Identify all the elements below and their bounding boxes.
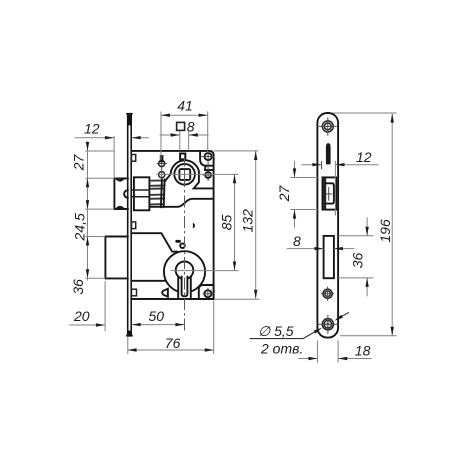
spindle follower hub bbox=[174, 164, 195, 185]
spring guide legs bbox=[161, 179, 162, 207]
plate fixing tab lower bbox=[132, 289, 137, 296]
post bar bbox=[160, 155, 164, 162]
small screw hole bbox=[323, 289, 332, 298]
svg-text:12: 12 bbox=[84, 121, 100, 137]
dim square 8 bbox=[177, 122, 185, 130]
case step line bbox=[150, 199, 214, 207]
svg-text:36: 36 bbox=[350, 253, 366, 269]
bottom right screw pad bbox=[199, 285, 214, 299]
fixing hole U2 bbox=[205, 172, 211, 178]
cylinder boss circle bbox=[164, 251, 205, 292]
latch front profile bbox=[326, 183, 334, 203]
adjuster slot bbox=[326, 143, 331, 164]
spindle square hole bbox=[179, 169, 190, 180]
faceplate side view bbox=[127, 114, 129, 336]
plate fixing tab middle bbox=[132, 222, 136, 229]
square hole anchor bar bbox=[180, 154, 185, 160]
deadbolt guide line bbox=[131, 280, 166, 282]
latch tail block bbox=[134, 177, 150, 210]
fixing hole U3 bbox=[204, 290, 211, 297]
lock case outline bbox=[132, 151, 214, 299]
lower case outline bbox=[132, 233, 178, 251]
follower housing bbox=[164, 160, 213, 188]
cylinder centre line vertical bbox=[184, 155, 186, 331]
cylinder channel walls bbox=[177, 276, 179, 299]
svg-text:8: 8 bbox=[293, 233, 301, 249]
latch spring hatch bbox=[150, 180, 164, 204]
svg-text:18: 18 bbox=[355, 343, 371, 359]
top right screw pad bbox=[200, 151, 214, 166]
svg-text:20: 20 bbox=[73, 308, 90, 324]
svg-text:12: 12 bbox=[356, 149, 372, 165]
latch cutout bbox=[323, 177, 337, 209]
svg-text:132: 132 bbox=[240, 209, 256, 233]
D mark bbox=[193, 223, 195, 229]
svg-text:2 отв.: 2 отв. bbox=[260, 341, 303, 357]
faceplate outline bbox=[317, 113, 338, 338]
small rivet bar bbox=[175, 240, 180, 243]
svg-text:41: 41 bbox=[177, 97, 193, 113]
svg-text:24,5: 24,5 bbox=[72, 213, 88, 241]
case bottom edge bbox=[132, 298, 214, 300]
svg-text:27: 27 bbox=[71, 154, 87, 172]
deadbolt bbox=[105, 236, 128, 238]
bottom screw hole bbox=[322, 319, 333, 330]
svg-text:36: 36 bbox=[70, 279, 86, 295]
svg-text:27: 27 bbox=[276, 185, 292, 203]
top screw hole bbox=[322, 121, 333, 132]
plate fixing tab upper bbox=[132, 155, 136, 162]
fixing hole U1 bbox=[205, 153, 212, 160]
svg-text:8: 8 bbox=[187, 119, 195, 135]
latch bolt bbox=[113, 178, 115, 209]
spindle centre line horizontal bbox=[156, 173, 238, 175]
svg-text:76: 76 bbox=[165, 335, 181, 351]
left post holes bbox=[159, 160, 165, 166]
D tab stop bbox=[162, 289, 168, 297]
cylinder centre line horizontal bbox=[171, 270, 239, 272]
small rivet circle bbox=[180, 243, 185, 248]
svg-text:50: 50 bbox=[149, 308, 165, 324]
extension lines left bbox=[85, 150, 114, 152]
deadbolt cutout bbox=[324, 236, 334, 278]
svg-text:∅ 5,5: ∅ 5,5 bbox=[258, 323, 294, 339]
svg-text:196: 196 bbox=[377, 219, 393, 243]
svg-text:85: 85 bbox=[219, 215, 235, 231]
euro cylinder hole bbox=[176, 262, 194, 280]
